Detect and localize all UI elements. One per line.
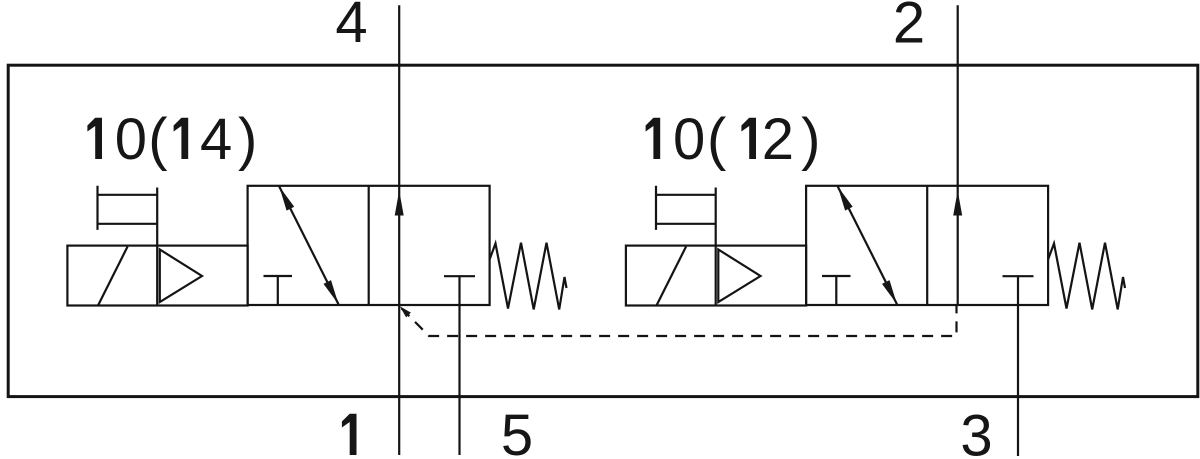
label 10(14) (87, 118, 102, 159)
label 10(12) (646, 118, 661, 159)
valve V2 position divider (926, 186, 928, 305)
svg-text:0: 0 (673, 107, 705, 172)
valve V2 blocked port symbol left (822, 276, 851, 305)
svg-text:0: 0 (115, 107, 147, 172)
valve V1 exhaust path arrow (279, 186, 338, 304)
valve V2 pilot actuator box (656, 186, 716, 230)
label 1 (342, 414, 357, 455)
svg-text:2: 2 (762, 107, 794, 172)
svg-text:3: 3 (960, 404, 992, 459)
valve V1 blocked port symbol left (264, 276, 293, 305)
valve V2 return spring (1048, 243, 1125, 310)
valve V2 solenoid divider (715, 188, 717, 306)
svg-text:): ) (801, 107, 820, 172)
port 4/1 line (398, 5, 400, 455)
port 3 line (1017, 276, 1019, 456)
manifold block outline (8, 65, 1198, 396)
valve V1 position divider (368, 186, 370, 305)
port 5 line (458, 276, 460, 455)
pilot line dashed (400, 306, 956, 337)
valve V1 pilot triangle (160, 250, 202, 303)
svg-text:5: 5 (501, 403, 533, 459)
valve V1 flow arrow 1-4 (395, 191, 404, 216)
svg-text:): ) (238, 107, 257, 172)
valve V1 solenoid divider (156, 188, 158, 306)
valve V1 blocked port symbol right (444, 275, 475, 277)
port 2 line (957, 5, 959, 305)
svg-text:4: 4 (335, 0, 367, 55)
svg-text:2: 2 (893, 0, 925, 56)
valve V2 blocked port symbol right (1003, 275, 1034, 277)
valve V2 exhaust path arrow (838, 186, 897, 304)
svg-text:4: 4 (200, 107, 232, 172)
valve V2 body (806, 186, 1048, 305)
valve V1 pilot actuator box (98, 186, 158, 230)
valve V2 solenoid box (626, 246, 806, 306)
svg-text:(: ( (707, 107, 726, 172)
valve V1 solenoid box (67, 246, 247, 306)
valve V1 return spring (490, 243, 567, 310)
valve V1 solenoid coil diagonal (98, 247, 128, 306)
valve V2 solenoid coil diagonal (657, 247, 687, 306)
svg-text:(: ( (148, 107, 167, 172)
valve V2 pilot triangle (718, 250, 760, 303)
valve V1 body (248, 186, 490, 305)
valve V2 flow arrow 1-2 (953, 191, 962, 216)
